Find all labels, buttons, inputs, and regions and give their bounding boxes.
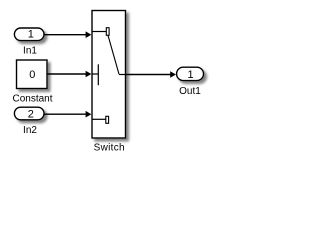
arrowhead In1 wire [86,31,92,38]
switch icon: input 3 contact tick [106,116,109,123]
svg-text:0: 0 [29,69,35,81]
svg-text:2: 2 [28,108,34,120]
wire In1 to Switch [44,34,87,36]
switch icon: input 3 stem [92,118,106,120]
constant block [17,60,48,89]
svg-text:Constant: Constant [12,94,52,105]
switch icon: threshold stem [92,73,98,75]
inport In2 [14,107,44,120]
wire In2 to Switch [44,113,87,115]
wire Constant to Switch [47,73,87,75]
svg-text:Switch: Switch [94,142,125,153]
wire Switch to Out1 [126,74,172,76]
switch icon: arm (diagonal) [108,35,119,74]
svg-text:1: 1 [187,69,193,81]
switch icon: threshold vertical bar [97,64,99,85]
svg-text:In2: In2 [23,125,37,136]
inport In1 [14,28,44,41]
switch icon: input 1 stem [92,31,106,33]
svg-text:Out1: Out1 [179,86,201,97]
switch icon: output stem [119,74,126,76]
switch block [92,11,126,139]
switch icon: input 1 contact tick [106,28,109,36]
arrowhead In2 wire [86,111,92,118]
arrowhead Out1 wire [170,71,176,78]
svg-text:1: 1 [28,29,34,41]
svg-text:In1: In1 [23,46,37,57]
outport Out1 [177,67,204,80]
arrowhead Constant wire [86,71,92,78]
